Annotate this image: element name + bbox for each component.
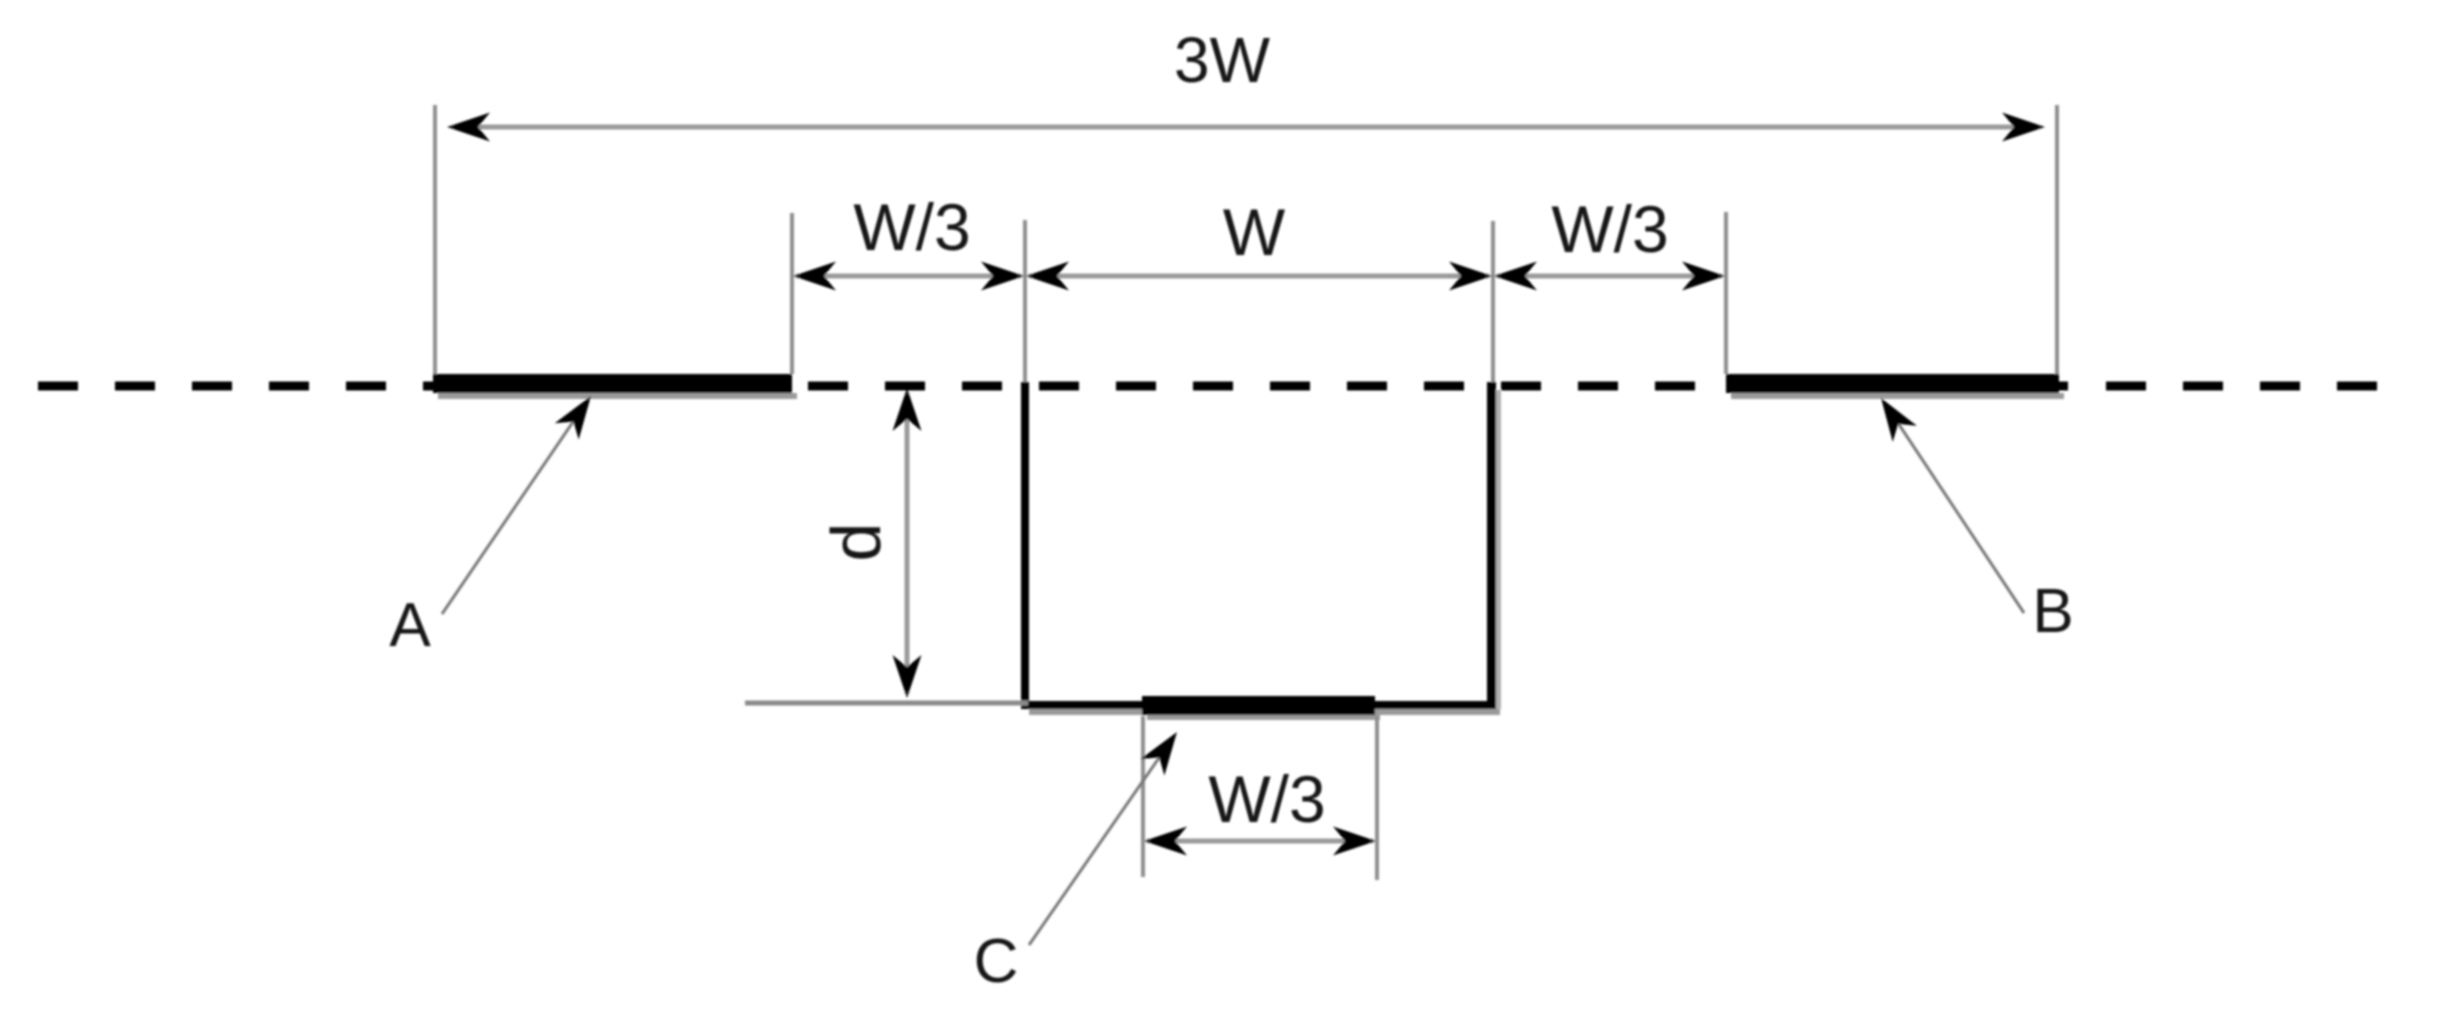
- dimension line W/3 left: [796, 274, 1021, 279]
- dimension line d (vertical): [905, 392, 910, 694]
- dimension line W/3 right: [1497, 274, 1722, 279]
- svg-text:W: W: [1223, 195, 1286, 269]
- arrowhead bottom W/3 right: [1333, 827, 1376, 856]
- slot left wall: [1021, 382, 1029, 709]
- leader arrowhead A: [555, 388, 603, 440]
- arrowhead W/3 right, right end: [1682, 262, 1725, 291]
- dimension line W: [1029, 274, 1489, 279]
- svg-text:C: C: [974, 927, 1019, 996]
- floor reference line for d: [745, 701, 1028, 706]
- arrowhead W left end: [1026, 262, 1069, 291]
- arrowhead 3W left: [447, 113, 490, 142]
- arrowhead bottom W/3 left: [1144, 827, 1187, 856]
- shadow under slot floor: [1029, 709, 1500, 715]
- strip conductor A (left thick bar): [433, 374, 792, 393]
- shadow under conductor A: [438, 393, 797, 399]
- arrowhead d top: [893, 388, 922, 431]
- svg-text:A: A: [389, 591, 431, 660]
- svg-text:B: B: [2032, 577, 2073, 646]
- svg-text:d: d: [817, 523, 895, 562]
- shadow under conductor B: [1731, 393, 2064, 399]
- extension line right of 3W: [2055, 105, 2059, 377]
- leader line C: [1029, 755, 1161, 945]
- shadow under conductor C: [1147, 715, 1380, 720]
- arrowhead W/3 right, left end: [1494, 262, 1537, 291]
- dimension line 3W: [452, 125, 2040, 130]
- slot floor: [1021, 701, 1496, 709]
- svg-text:3W: 3W: [1174, 24, 1271, 96]
- svg-text:W/3: W/3: [1208, 762, 1325, 836]
- leader line A: [442, 419, 575, 614]
- extension line bottom W/3 right: [1375, 716, 1379, 880]
- arrowhead d bottom: [893, 655, 922, 698]
- strip conductor C (bottom thick bar): [1142, 696, 1375, 715]
- leader line B: [1896, 420, 2024, 613]
- arrowhead W/3 left, right end: [981, 262, 1024, 291]
- shadow right of slot right wall: [1496, 390, 1501, 709]
- arrowhead W/3 left, left end: [793, 262, 836, 291]
- extension line slot left edge (gray upper part): [1023, 220, 1027, 384]
- extension line right W/3 outer: [1724, 212, 1728, 374]
- extension line slot right edge (gray upper part): [1491, 221, 1495, 384]
- dashed centerline (ground plane axis), left portion: [38, 382, 2068, 391]
- extension line left W/3 outer: [790, 213, 794, 374]
- svg-text:W/3: W/3: [1551, 192, 1668, 266]
- arrowhead W right end: [1449, 262, 1492, 291]
- leader arrowhead C: [1141, 724, 1189, 776]
- extension line bottom W/3 left: [1141, 716, 1145, 877]
- strip conductor B (right thick bar): [1726, 374, 2059, 393]
- arrowhead 3W right: [2002, 113, 2045, 142]
- slot right wall: [1487, 382, 1496, 709]
- svg-text:W/3: W/3: [853, 190, 970, 264]
- dimension line bottom W/3: [1147, 839, 1373, 844]
- dashed centerline (ground plane axis), right portion: [2106, 382, 2377, 391]
- leader arrowhead B: [1869, 390, 1917, 442]
- extension line left of 3W: [433, 105, 437, 377]
